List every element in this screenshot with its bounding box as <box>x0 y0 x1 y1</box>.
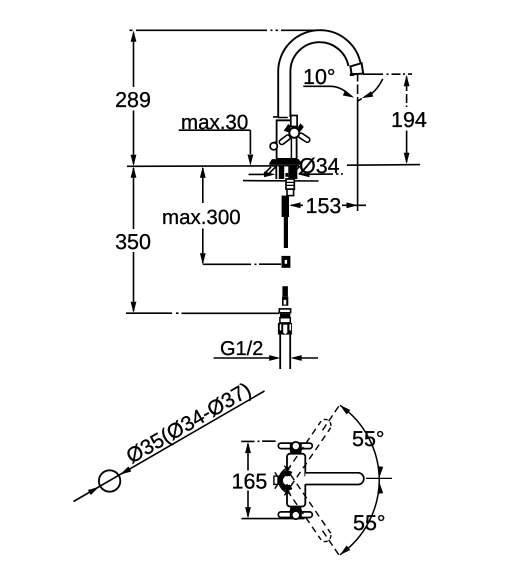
gooseneck spout inner <box>290 42 348 117</box>
top view: 165 top reference line <box>241 440 275 442</box>
max.300 bottom reference line <box>203 263 281 265</box>
svg-text:Ø35(Ø34-Ø37): Ø35(Ø34-Ø37) <box>123 378 256 468</box>
dimension max.300 line <box>202 168 204 263</box>
153 right arrow <box>347 202 358 208</box>
leader arrow lower <box>88 484 101 495</box>
dimension 289 bottom arrow <box>131 155 137 166</box>
top view: top handle bar <box>278 443 312 449</box>
side knob <box>270 143 277 150</box>
vertical line from spout outlet down <box>357 75 359 211</box>
top view: bottom hub <box>292 511 300 519</box>
handle stem housing <box>291 116 297 127</box>
deck surface line <box>127 165 420 167</box>
swung spout lower: dashed centreline <box>323 531 341 558</box>
diagonal leader line dia35 <box>74 391 265 502</box>
leader arrow upper <box>119 466 132 477</box>
band stack <box>280 314 290 318</box>
top view: left cap <box>274 476 278 484</box>
swung spout upper: dashed end cap <box>323 419 331 425</box>
svg-text:max.300: max.300 <box>162 206 241 229</box>
top view: spout tube <box>305 473 364 485</box>
max.30 vertical line <box>249 130 251 154</box>
spout height dash-dot reference line <box>363 73 412 75</box>
350 bottom reference line <box>126 312 279 314</box>
cross handle hub <box>289 128 299 138</box>
10 deg leader curve with arrow <box>303 86 349 95</box>
arc mid arrowheads <box>376 466 383 478</box>
dimension 350 bottom arrow <box>131 302 137 313</box>
G1/2 left arrow <box>269 355 280 361</box>
svg-text:G1/2: G1/2 <box>220 338 263 360</box>
small block <box>287 189 294 195</box>
cross handle left upper wedge <box>284 124 291 132</box>
top reference line at spout top <box>130 29 318 31</box>
svg-text:289: 289 <box>115 88 151 112</box>
165 up arrow <box>245 442 251 453</box>
connection pipe G1/2 <box>280 335 290 369</box>
shank striped nut below deck <box>275 166 297 179</box>
nozzle axis tick <box>357 99 362 102</box>
top view: body <box>287 454 305 507</box>
deck bottom line <box>243 180 319 182</box>
svg-text:350: 350 <box>115 230 151 254</box>
svg-text:165: 165 <box>232 470 268 494</box>
top view: top handle stem <box>289 449 302 454</box>
hose fitting <box>282 256 291 268</box>
deck hatch marks left <box>264 167 276 174</box>
nozzle bottom lip <box>350 73 355 76</box>
max.30 down arrow <box>248 155 254 166</box>
cross handle lower-left spoke <box>278 134 291 145</box>
faucet body front view <box>273 117 291 120</box>
deck hatch marks right <box>294 166 306 174</box>
top view: flange second arc <box>280 470 290 492</box>
max.300 bottom arrow <box>200 253 206 264</box>
connector with window <box>282 297 288 306</box>
dimension 289 top arrow <box>131 31 137 42</box>
194 top arrow <box>404 75 410 86</box>
gooseneck spout outer <box>278 30 360 117</box>
swung spout upper: edge dashed lines <box>284 428 330 496</box>
dimension 289 line <box>133 33 135 164</box>
svg-text:153: 153 <box>306 194 342 218</box>
top view: bottom handle stem <box>289 506 302 512</box>
dimension 350 top arrow <box>131 167 137 178</box>
165 down arrow <box>245 507 251 518</box>
top view: flange outer arc <box>279 467 291 493</box>
spout centre tick <box>366 477 392 479</box>
dia34 dimension line with arrows <box>249 173 344 175</box>
cross handle lower-right spoke <box>298 132 311 143</box>
supply pipe lower <box>282 286 288 297</box>
top view: flange channel <box>285 476 306 484</box>
hex nut G1/2 <box>278 323 292 335</box>
spout nozzle <box>350 63 363 74</box>
svg-text:194: 194 <box>391 108 427 132</box>
base flange <box>269 159 302 165</box>
arc top arrowhead <box>338 403 350 415</box>
mounting hole circle <box>99 470 120 491</box>
top view: top hub <box>292 442 300 450</box>
swung spout lower: edge dashed lines <box>284 466 330 534</box>
svg-text:55°: 55° <box>353 511 386 535</box>
swing arc <box>340 405 379 554</box>
G1/2 right arrow <box>290 355 301 361</box>
10 deg right arc with arrow <box>367 79 383 97</box>
swung spout lower: dashed end cap <box>323 535 331 541</box>
arc bottom arrowhead <box>338 546 350 558</box>
153 left arrow <box>289 202 300 208</box>
nut bar <box>279 309 290 313</box>
top view: bottom handle bar <box>278 512 312 518</box>
dimension 165 line <box>247 444 249 517</box>
194 bottom arrow <box>404 153 410 164</box>
dimension 350 line <box>133 168 135 311</box>
swung spout upper: dashed centreline <box>323 404 341 431</box>
max.300 top arrow <box>200 167 206 178</box>
supply pipe upper <box>282 196 289 217</box>
top view: 165 bottom reference line <box>242 518 305 520</box>
ribbed block <box>286 179 294 189</box>
svg-text:55°: 55° <box>352 427 385 451</box>
top view: flange dark crescent <box>278 471 293 491</box>
dimension 153 line <box>291 204 366 206</box>
cross handle right upper wedge <box>298 123 304 131</box>
dimension 194 line <box>406 77 408 162</box>
